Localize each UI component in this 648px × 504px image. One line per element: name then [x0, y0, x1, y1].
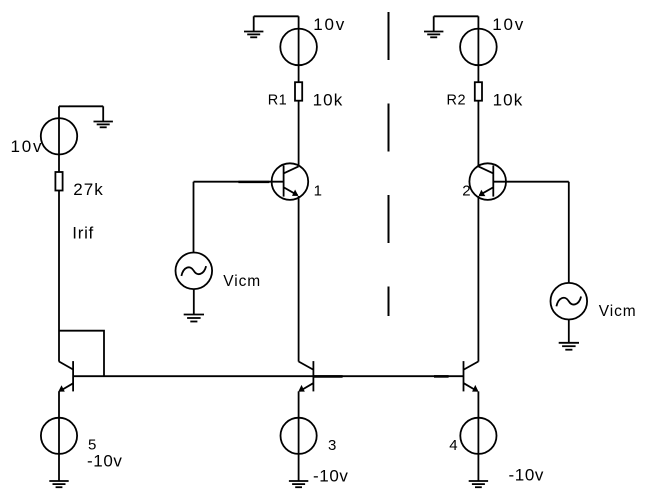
transistor Q3 base bar [312, 361, 314, 391]
voltage source 10v middle [280, 29, 317, 66]
transistor Q5 emitter [60, 383, 73, 391]
wire [298, 16, 300, 82]
transistor Q4 base bar [463, 361, 465, 391]
current source 3 [281, 418, 317, 454]
wire overlap [434, 375, 449, 378]
wire [59, 331, 104, 377]
voltage source 10v left [41, 118, 77, 154]
wire Irif [58, 190, 60, 361]
svg-text:-10v: -10v [509, 465, 544, 484]
wire [59, 105, 103, 107]
wire Q2 base [493, 181, 569, 183]
wire [254, 15, 299, 17]
ground Vicm right [559, 343, 579, 350]
svg-text:R1: R1 [268, 93, 288, 109]
voltage source 10v right [460, 29, 497, 66]
svg-text:4: 4 [449, 437, 457, 454]
svg-text:-10v: -10v [313, 467, 348, 486]
svg-text:-10v: -10v [87, 451, 122, 470]
current source 4 [460, 418, 496, 454]
svg-text:10k: 10k [493, 90, 524, 109]
svg-text:10k: 10k [313, 90, 344, 109]
wire overlap [238, 181, 269, 183]
wire [58, 106, 60, 172]
source Vicm left [176, 252, 213, 289]
base wire [73, 375, 463, 377]
resistor R2 [475, 82, 482, 101]
svg-text:1: 1 [314, 183, 322, 200]
svg-text:10v: 10v [492, 15, 525, 34]
svg-text:R2: R2 [447, 93, 467, 109]
wire [58, 391, 60, 481]
transistor Q5 collector [59, 362, 73, 370]
ground bottom-middle [289, 481, 308, 487]
svg-text:Vicm: Vicm [599, 303, 637, 320]
svg-text:Irif: Irif [72, 224, 94, 243]
transistor Q1 [272, 163, 309, 200]
svg-text:3: 3 [328, 437, 336, 454]
wire [477, 101, 479, 166]
transistor Q5 base bar [72, 361, 74, 391]
wire Q1 base [194, 181, 284, 183]
transistor Q4 collector [464, 362, 479, 370]
svg-text:27k: 27k [73, 180, 104, 199]
current source 5 [41, 418, 77, 454]
ground top-left [94, 106, 113, 127]
wire [434, 15, 479, 17]
ground Vicm left [184, 315, 204, 322]
transistor Q2 [469, 163, 506, 200]
svg-text:10v: 10v [313, 15, 346, 34]
transistor Q4 emitter [464, 383, 477, 391]
transistor Q3 emitter [300, 383, 313, 391]
wire [298, 101, 300, 166]
wire [298, 196, 300, 362]
resistor R1 [295, 82, 302, 101]
svg-text:2: 2 [462, 183, 470, 200]
wire [477, 196, 479, 362]
wire [193, 182, 195, 253]
transistor Q3 collector [299, 362, 314, 370]
wire [568, 182, 570, 283]
resistor 27k [55, 172, 62, 191]
svg-text:Vicm: Vicm [223, 273, 261, 290]
ground bottom-left [49, 481, 68, 487]
ground top-middle [244, 16, 263, 37]
wire [477, 16, 479, 82]
ground bottom-right [469, 481, 488, 487]
wire overlap [314, 375, 343, 378]
wire [298, 391, 300, 481]
source Vicm right [551, 283, 588, 320]
svg-text:10v: 10v [11, 137, 44, 156]
wire [477, 391, 479, 481]
wire [193, 289, 195, 314]
ground top-right [424, 16, 443, 37]
dashed divider [388, 12, 390, 316]
wire [568, 320, 570, 343]
